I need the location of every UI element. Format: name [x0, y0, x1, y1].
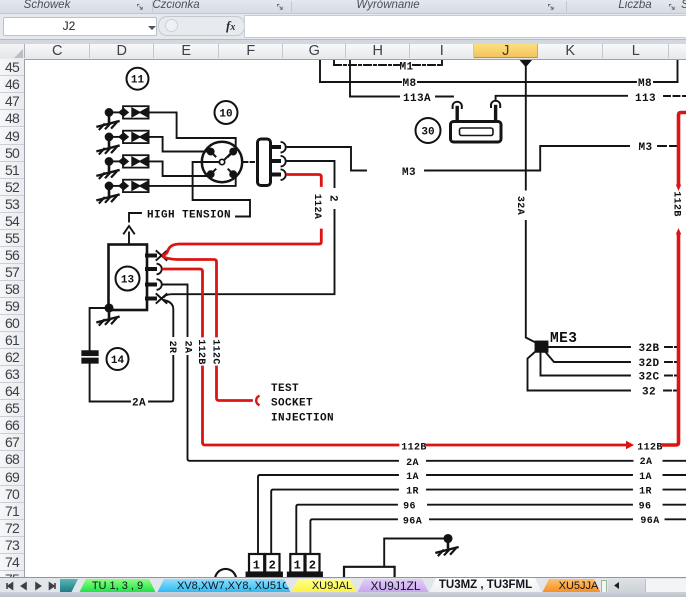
wire hub to HIGH TENSION tag: [193, 162, 250, 217]
connector block X1 cell 2: [265, 554, 279, 573]
wire M1 left vertical: [333, 60, 335, 66]
wire 113A vertical: [349, 60, 351, 97]
wire M8 line: [320, 81, 678, 83]
coil U13 pin 2 stub: [147, 267, 155, 271]
wire M3 right dashes: [658, 145, 682, 147]
spark plug row 1: node dot: [106, 109, 113, 116]
red wires: [164, 113, 686, 449]
svg-text:112B: 112B: [637, 442, 663, 453]
HIGH TENSION left bracket: [129, 213, 141, 222]
wire plug3 to gap: [112, 160, 123, 162]
top ribbon group strip: [0, 0, 686, 14]
ground G2: [98, 140, 119, 154]
svg-text:11: 11: [131, 75, 145, 87]
svg-text:1A: 1A: [406, 472, 419, 483]
circle tag 14: [107, 348, 129, 370]
svg-text:TEST: TEST: [271, 383, 299, 395]
wire M1 right vertical: [441, 60, 443, 66]
module box bottom center: [344, 567, 395, 578]
red wire 112B right to top edge: [664, 113, 686, 446]
wire U13 pin4 to capacitor loop: [90, 300, 174, 402]
wire plug1 to distributor cap: [149, 112, 236, 146]
circle tag 10: [215, 101, 238, 124]
red wire 112A: CN1 pin3 to U13 pin1: [164, 175, 322, 256]
distributor hub: [219, 159, 224, 164]
connector block X1 cell 1: [249, 554, 264, 573]
distributor contact upper-left: [208, 149, 216, 157]
svg-text:112B: 112B: [401, 442, 427, 453]
svg-text:2A: 2A: [406, 458, 419, 469]
svg-text:1A: 1A: [639, 472, 652, 483]
svg-text:96: 96: [403, 502, 416, 513]
wire 113 right dashes: [664, 95, 686, 97]
junction ME3: [536, 342, 548, 352]
wire M8 right vertical: [677, 60, 679, 83]
wire plug4 to gap: [112, 185, 123, 187]
svg-text:M3: M3: [402, 167, 416, 179]
connector hook terminal 2 of U30: [491, 101, 500, 121]
wire 32D: [545, 352, 630, 363]
connector CN1 pin 2 hook: [282, 156, 286, 166]
spark gap E1: [119, 106, 149, 118]
spark plug row 2: node dot: [106, 134, 113, 141]
svg-text:113A: 113A: [403, 93, 431, 105]
coil U13 pin 1 hook X: [157, 251, 167, 260]
svg-text:1R: 1R: [639, 486, 652, 497]
coil U13 pin 4 stub: [147, 297, 155, 301]
capacitor C14 plates: [82, 351, 97, 363]
wire plug2 to gap: [112, 136, 123, 138]
connector block X2 base: [288, 573, 322, 577]
wire M1 dashed line: [334, 64, 442, 66]
svg-text:M8: M8: [402, 78, 416, 90]
svg-text:96A: 96A: [403, 516, 422, 527]
svg-text:2: 2: [309, 559, 317, 573]
component U30 body: [451, 122, 502, 143]
wire 113 line: [496, 96, 627, 100]
wire bridge arc bottom: [205, 569, 249, 580]
connector CN1 pin 1 stub: [271, 145, 279, 149]
row headers: [0, 59, 25, 577]
diagram text labels: [132, 61, 682, 572]
distributor U10 outer circle: [202, 142, 242, 182]
wire ground to module box: [384, 539, 444, 567]
svg-text:112C: 112C: [210, 339, 221, 365]
svg-text:112B: 112B: [195, 339, 206, 365]
circle tag 13: [116, 267, 140, 291]
spark gap E4: [119, 180, 149, 192]
spark gap E3: [119, 155, 149, 167]
coil U13 body: [109, 245, 148, 311]
svg-text:13: 13: [121, 275, 135, 287]
svg-text:SOCKET: SOCKET: [271, 398, 313, 410]
coil U13 pin 3 stub: [147, 283, 155, 287]
svg-text:1: 1: [294, 559, 302, 573]
svg-text:32C: 32C: [638, 372, 659, 384]
wire 1A: [258, 475, 686, 554]
node ground dot lower right: [444, 535, 451, 542]
column headers: [0, 44, 686, 60]
svg-text:96: 96: [639, 502, 652, 513]
svg-text:M1: M1: [399, 61, 413, 73]
wire 96: [296, 505, 686, 554]
connector block X2 cell 2: [306, 554, 320, 573]
ground G5 at U13: [98, 311, 119, 325]
svg-text:112A: 112A: [311, 194, 322, 220]
connector CN1 pin 3 stub: [271, 173, 279, 177]
ground G3: [98, 165, 119, 179]
svg-text:2: 2: [327, 195, 339, 202]
wire 113A line: [350, 96, 453, 98]
red wire 112B: U13 pin2 down: [164, 269, 627, 445]
node J column wire 32A top arrow marker: [520, 60, 531, 67]
svg-text:ME3: ME3: [550, 331, 577, 347]
connector block X2 cell 1: [290, 554, 304, 573]
wire plug2 to distributor cap: [149, 137, 206, 152]
distributor rotor arm: [224, 153, 231, 160]
connector CN1 body: [258, 139, 271, 186]
svg-text:1R: 1R: [406, 487, 419, 498]
svg-text:2A: 2A: [640, 457, 653, 468]
connector CN1 pin 3 hook: [282, 170, 286, 180]
wire M8 left vertical: [319, 60, 321, 83]
wire 32C: [541, 352, 631, 376]
wire M3 from CN1 pin1: [288, 146, 630, 171]
coil U13 HT arrow: [124, 226, 134, 244]
spark plug row 4: node dot: [106, 183, 113, 190]
ground G1: [98, 116, 119, 130]
formula bar: [0, 14, 686, 40]
svg-text:2R: 2R: [166, 341, 177, 354]
wire dashed rotor to connector: [244, 161, 255, 163]
sheet tab bar: [0, 577, 686, 593]
svg-text:96A: 96A: [640, 516, 659, 527]
reference circles: [107, 68, 441, 370]
coil U13 pin 4 hook X: [157, 294, 167, 303]
distributor contact lower-right: [228, 169, 236, 177]
svg-text:2A: 2A: [182, 341, 193, 354]
distributor contact lower-left: [208, 169, 216, 177]
ground G4: [98, 189, 119, 203]
coil U13 pin 3 hook: [158, 279, 162, 289]
wire plug3 to distributor cap: [149, 161, 206, 176]
connector block X1 base: [247, 573, 283, 577]
ground G6 lower right: [437, 542, 458, 556]
connector CN1 pin 2 stub: [271, 159, 279, 163]
svg-text:1: 1: [253, 559, 261, 573]
svg-text:2A: 2A: [132, 398, 146, 410]
svg-text:14: 14: [111, 355, 125, 367]
svg-text:32B: 32B: [638, 343, 659, 355]
svg-text:10: 10: [219, 109, 232, 121]
red test socket hook: [256, 396, 258, 404]
red wire 112C: U13 pin1 to test socket: [164, 257, 252, 401]
wire capacitor top to U13 ground node: [90, 308, 108, 351]
svg-text:112B: 112B: [671, 191, 682, 217]
svg-text:2: 2: [269, 559, 277, 573]
circle tag 30: [416, 118, 441, 143]
svg-text:M8: M8: [638, 78, 652, 90]
spark gap E2: [119, 131, 149, 143]
svg-text:HIGH TENSION: HIGH TENSION: [147, 210, 231, 222]
node U13 ground junction dot: [105, 304, 112, 311]
wire plug1 to gap: [112, 111, 123, 113]
wire plug4 to distributor cap: [149, 178, 236, 186]
wire 96A: [310, 519, 686, 553]
circle tag 11: [127, 68, 149, 90]
wire U13 pin3 to 2A line: [163, 285, 686, 461]
svg-text:113: 113: [635, 93, 656, 105]
spark plug row 3: node dot: [106, 158, 113, 165]
connector CN1 pin 1 hook: [282, 142, 286, 152]
red arrowhead 112B: [627, 442, 634, 449]
svg-text:32A: 32A: [514, 196, 525, 215]
coil U13 pin 1 stub: [147, 254, 155, 258]
svg-text:32: 32: [642, 387, 656, 399]
svg-text:32D: 32D: [638, 358, 659, 370]
svg-text:M3: M3: [638, 142, 652, 154]
distributor contact upper-right: [228, 149, 236, 157]
coil U13 pin 2 hook: [158, 264, 162, 274]
component U30 inner slot: [460, 128, 494, 136]
wire 32A vertical: [526, 61, 537, 343]
wire 32B: [548, 346, 631, 348]
svg-text:30: 30: [421, 127, 434, 139]
svg-text:INJECTION: INJECTION: [271, 413, 334, 425]
wire CN1 pin2 to U13 pin4: [164, 161, 335, 297]
connector hook terminal 1 of U30: [453, 102, 462, 121]
wire 1R: [271, 490, 686, 554]
wire 32: [528, 351, 631, 391]
